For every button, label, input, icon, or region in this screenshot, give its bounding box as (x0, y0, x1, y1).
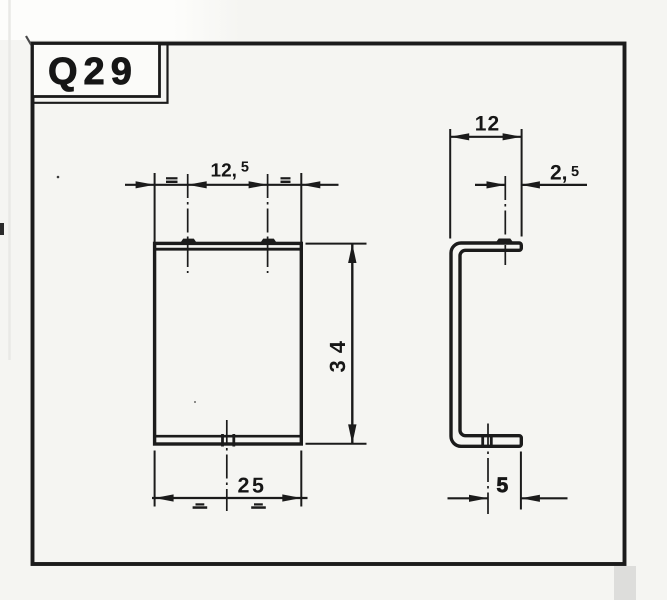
arrow 2,5 at centerline pointing right (487, 181, 506, 188)
side view bottom tab mark right (490, 435, 493, 448)
equal mark left (25 row) (193, 503, 208, 509)
dimension line 12 (450, 136, 521, 138)
dimension line 2,5 left segment (475, 184, 506, 186)
faint scan line left margin (8, 0, 11, 360)
arrow 5 at edge pointing left (521, 495, 540, 502)
dimension line 25 (152, 497, 308, 499)
speck dot left (57, 176, 60, 179)
title box Q29 (33, 44, 160, 97)
side view top tab (495, 239, 514, 244)
extension line left edge (12,5 dim) (154, 173, 156, 242)
side view top centerline (504, 176, 506, 265)
extension line right (12 dim) (521, 129, 523, 237)
arrow at centerline1 pointing left (188, 181, 207, 188)
svg-text:25: 25 (238, 473, 267, 497)
corner tick artifact (26, 36, 33, 48)
arrow 5 at centerline pointing right (469, 495, 488, 502)
extension line left (25 dim) (154, 451, 156, 507)
arrow 25 left pointing left (155, 494, 174, 501)
arrow at centerline2 pointing right (249, 181, 268, 188)
extension line right (5 dim) (520, 452, 522, 510)
gray streak bottom-right margin (614, 566, 636, 600)
speck dot in front view (194, 401, 196, 403)
side view bottom tab mark left (481, 435, 484, 448)
title box shadow lines (34, 45, 168, 103)
centerline bottom middle (226, 420, 228, 511)
front view bottom tab mark left (221, 434, 224, 447)
arrow 2,5 at edge pointing left (521, 181, 540, 188)
front view bottom fold line (155, 435, 302, 438)
extension line right (25 dim) (300, 451, 302, 507)
arrow 12 right pointing right (503, 133, 522, 140)
centerline hole 1 (187, 174, 189, 273)
side view bottom centerline (487, 424, 489, 515)
extension line left (12 dim) (449, 129, 451, 239)
front view outline (155, 243, 302, 444)
svg-text:Q29: Q29 (48, 51, 138, 93)
arrow 25 right pointing right (282, 494, 301, 501)
svg-text:12: 12 (475, 112, 500, 135)
svg-text:5: 5 (497, 474, 509, 497)
extension line right edge (12,5 dim) (300, 173, 302, 242)
front view top tab left (180, 239, 198, 244)
arrow 34 top pointing up (348, 244, 356, 263)
svg-text:34: 34 (325, 334, 350, 372)
centerline hole 2 (267, 174, 269, 273)
extension line top (34 dim) (306, 243, 367, 245)
dimension line 12,5 (125, 184, 339, 186)
front view top tab right (260, 239, 278, 244)
arrow 34 bottom pointing down (348, 424, 356, 443)
dimension line 5 right segment (521, 497, 568, 499)
equal mark right (12,5 row) (281, 177, 291, 183)
front view bottom tab mark right (232, 434, 235, 447)
dimension line 34 (351, 244, 353, 444)
arrow at left edge pointing right (136, 181, 155, 188)
side view channel outline (451, 243, 521, 446)
arrow at right edge pointing left (301, 181, 320, 188)
extension line bottom (34 dim) (306, 443, 367, 445)
black smudge left edge (0, 223, 4, 235)
dimension line 2,5 right segment (521, 184, 587, 186)
dimension line 5 left segment (448, 497, 489, 499)
drawing border frame (33, 44, 625, 565)
front view top fold line (155, 248, 302, 251)
equal mark left (12,5 row) (166, 177, 178, 183)
arrow 12 left pointing left (450, 133, 469, 140)
white patch top-left margin (0, 0, 240, 40)
equal mark right (25 row) (251, 503, 266, 509)
